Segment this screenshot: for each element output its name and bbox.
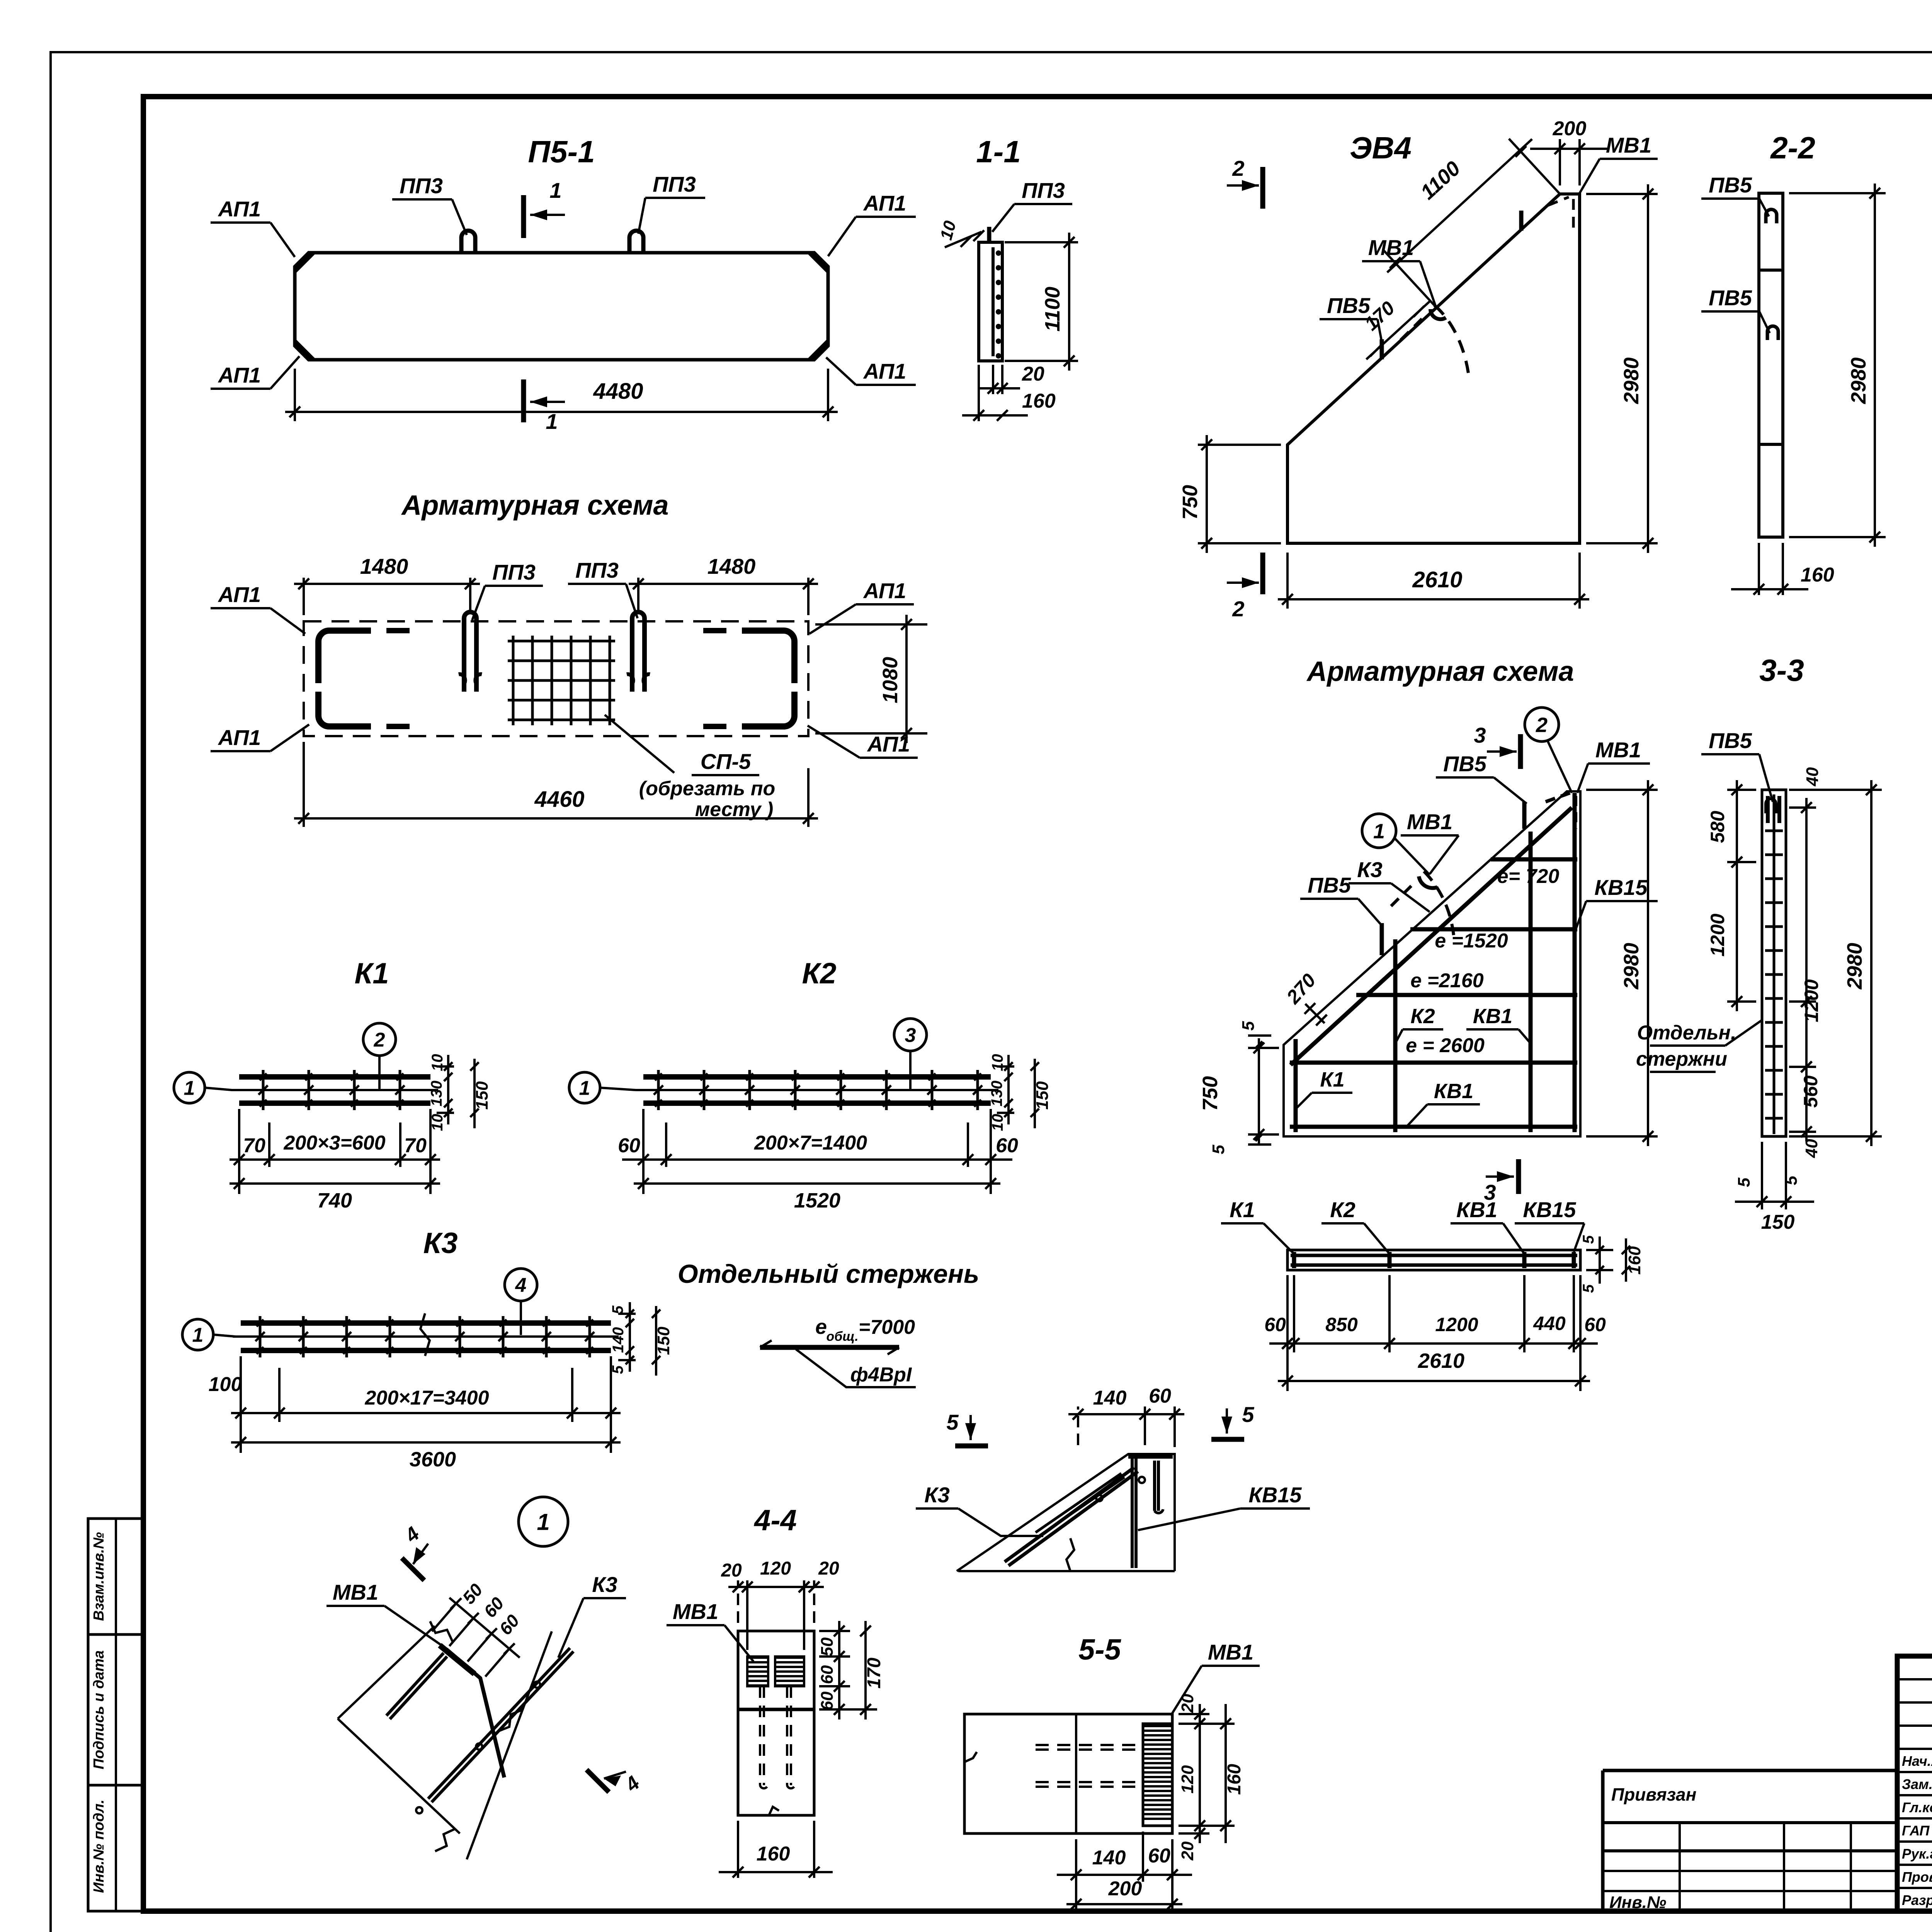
section mark 1 bottom [521, 379, 526, 422]
svg-text:(обрезать по: (обрезать по [639, 777, 776, 800]
svg-text:МВ1: МВ1 [333, 1580, 378, 1604]
bottom strip plan [1287, 1250, 1580, 1270]
svg-text:1200: 1200 [1435, 1314, 1478, 1335]
dim 2980 2-2 [1789, 192, 1886, 194]
node long dim line [467, 1631, 552, 1859]
svg-text:=7000: =7000 [859, 1316, 915, 1338]
2-2 strip [1759, 193, 1783, 537]
svg-text:К3: К3 [1357, 857, 1383, 882]
svg-text:МВ1: МВ1 [1595, 738, 1641, 762]
svg-text:130: 130 [988, 1081, 1005, 1107]
svg-text:МВ1: МВ1 [1606, 133, 1651, 157]
dim 1480 left arm [303, 578, 305, 615]
4-4 bottom dim 160 [769, 1807, 779, 1815]
svg-text:Арматурная схема: Арматурная схема [401, 490, 668, 521]
svg-text:2980: 2980 [1620, 357, 1643, 404]
1-1 wall strip [979, 242, 1002, 361]
svg-text:1: 1 [1373, 820, 1385, 843]
svg-text:ПП3: ПП3 [1022, 178, 1065, 202]
СП-5 label [605, 715, 674, 773]
К2 right dims [997, 1065, 1014, 1068]
dim 200 top [1559, 139, 1561, 185]
svg-text:20: 20 [1178, 1841, 1197, 1861]
svg-text:общ.: общ. [826, 1329, 858, 1344]
svg-text:1480: 1480 [707, 554, 756, 578]
svg-text:Подпись и дата: Подпись и дата [91, 1650, 107, 1769]
svg-text:130: 130 [428, 1081, 445, 1107]
750 dim arm [1258, 1038, 1260, 1144]
К3 right dims [618, 1313, 636, 1315]
svg-text:e: e [815, 1315, 827, 1338]
svg-text:Взам.инв.№: Взам.инв.№ [91, 1532, 107, 1621]
К2 bottom dims [642, 1109, 645, 1194]
svg-text:Инв.№: Инв.№ [1609, 1893, 1666, 1912]
270 dim slope [1305, 1004, 1325, 1023]
svg-text:60: 60 [1264, 1314, 1286, 1335]
svg-text:2980: 2980 [1620, 943, 1643, 990]
dim 160 1-1 [978, 365, 980, 421]
svg-text:850: 850 [1325, 1314, 1358, 1335]
svg-text:Привязан: Привязан [1611, 1784, 1696, 1804]
ПП3 loop tick 1-1 [987, 227, 992, 243]
svg-text:70: 70 [243, 1134, 265, 1157]
К3 diagonal bar arm [1291, 808, 1572, 1065]
svg-text:3: 3 [905, 1024, 916, 1047]
svg-text:1: 1 [549, 178, 561, 202]
second anchor leg node [386, 1653, 444, 1716]
svg-text:К2: К2 [1410, 1005, 1435, 1028]
svg-text:5: 5 [1735, 1177, 1753, 1187]
title block left attachment table [1603, 1769, 1897, 1772]
svg-text:ПП3: ПП3 [575, 558, 619, 582]
svg-text:2980: 2980 [1847, 357, 1870, 404]
3-3 right dims [1789, 806, 1816, 809]
svg-text:АП1: АП1 [863, 578, 906, 603]
svg-text:К3: К3 [423, 1227, 458, 1260]
svg-text:МВ1: МВ1 [1368, 235, 1414, 260]
ПВ5 ticks on slope [1380, 339, 1384, 359]
dim 20 1-1 [992, 365, 994, 394]
5-5 right dims [1179, 1713, 1209, 1715]
К3 pos circles [182, 1319, 213, 1350]
svg-text:КВ1: КВ1 [1456, 1197, 1497, 1222]
svg-text:МВ1: МВ1 [673, 1599, 718, 1624]
svg-text:ПВ5: ПВ5 [1308, 873, 1351, 897]
svg-text:АП1: АП1 [863, 359, 906, 383]
МВ1 embed middle + anchor dashed [1430, 309, 1446, 319]
svg-text:СП-5: СП-5 [701, 749, 751, 774]
svg-text:750: 750 [1199, 1076, 1222, 1111]
svg-text:40: 40 [1802, 1139, 1821, 1158]
svg-text:60: 60 [996, 1134, 1018, 1157]
svg-text:4: 4 [515, 1274, 527, 1297]
svg-text:5: 5 [1209, 1145, 1228, 1154]
svg-text:1: 1 [537, 1509, 549, 1535]
svg-text:20: 20 [1022, 363, 1044, 385]
svg-text:3600: 3600 [410, 1448, 456, 1471]
svg-text:КВ15: КВ15 [1523, 1197, 1576, 1222]
section mark 4 bottom-right [587, 1770, 609, 1792]
svg-text:5: 5 [946, 1410, 959, 1434]
svg-text:1080: 1080 [879, 657, 902, 703]
svg-text:Нач.АПМ-1: Нач.АПМ-1 [1902, 1753, 1932, 1769]
svg-text:10: 10 [429, 1054, 446, 1071]
СП-5 mesh [512, 636, 515, 725]
svg-text:4460: 4460 [534, 787, 584, 812]
svg-text:5: 5 [1239, 1021, 1258, 1031]
svg-text:2: 2 [1536, 713, 1548, 736]
dim 140/60 top detail [1077, 1406, 1079, 1445]
К1 right dims [437, 1065, 454, 1068]
3-3 2980 dim [1789, 789, 1882, 791]
svg-text:60: 60 [1149, 1385, 1171, 1407]
К1 pos circles [174, 1072, 205, 1103]
svg-text:150: 150 [654, 1327, 673, 1355]
slab П5-1 outline [295, 253, 828, 360]
svg-text:5: 5 [1782, 1175, 1801, 1185]
svg-text:месту ): месту ) [695, 798, 774, 821]
dim 170 [1366, 301, 1430, 359]
svg-text:5: 5 [1580, 1284, 1597, 1293]
svg-text:140: 140 [610, 1327, 627, 1353]
svg-text:20: 20 [818, 1558, 839, 1579]
К1 ladder [239, 1074, 430, 1080]
svg-text:Инв.№ подл.: Инв.№ подл. [91, 1799, 107, 1893]
strip right dims [1586, 1249, 1613, 1251]
К2 ladder [643, 1074, 991, 1080]
3-3 strip [1762, 790, 1786, 1136]
svg-text:160: 160 [1224, 1764, 1245, 1795]
svg-text:КВ1: КВ1 [1434, 1080, 1473, 1103]
svg-text:60: 60 [1148, 1845, 1170, 1867]
svg-text:2: 2 [1232, 597, 1244, 621]
pos circle 1 arm [1362, 814, 1396, 848]
svg-text:1200: 1200 [1801, 979, 1822, 1022]
svg-text:50: 50 [818, 1637, 837, 1656]
svg-text:К1: К1 [1230, 1197, 1255, 1222]
dim 160 2-2 [1758, 543, 1760, 595]
svg-text:150: 150 [473, 1081, 492, 1110]
svg-text:КВ15: КВ15 [1594, 875, 1648, 900]
horizontal bars arm [1491, 857, 1577, 862]
svg-text:2610: 2610 [1418, 1349, 1464, 1372]
svg-text:200×17=3400: 200×17=3400 [364, 1387, 489, 1409]
svg-text:1480: 1480 [360, 554, 408, 578]
4-4 top dims [737, 1580, 739, 1623]
svg-text:3-3: 3-3 [1759, 653, 1804, 687]
node 1 circle [519, 1497, 568, 1546]
3-3 top anchors [1766, 799, 1776, 813]
svg-text:5: 5 [1580, 1235, 1597, 1244]
svg-text:ПВ5: ПВ5 [1327, 293, 1371, 318]
strip bottom dims [1286, 1275, 1289, 1391]
svg-text:1-1: 1-1 [976, 134, 1021, 169]
svg-text:МВ1: МВ1 [1407, 810, 1452, 834]
svg-text:Провер.: Провер. [1902, 1869, 1932, 1885]
svg-text:1100: 1100 [1041, 287, 1064, 332]
svg-text:МВ1: МВ1 [1208, 1640, 1253, 1664]
МВ1 anchor bent bar node [446, 1649, 504, 1777]
section marks 2 [1260, 167, 1265, 209]
dim 1100 along slope [1509, 139, 1560, 194]
svg-text:Отдельный стержень: Отдельный стержень [678, 1259, 980, 1289]
dim 4480 [294, 369, 296, 421]
svg-text:Зам.нач.: Зам.нач. [1902, 1776, 1932, 1792]
ПВ5 U anchors 2-2 [1766, 209, 1777, 223]
svg-text:160: 160 [1022, 390, 1056, 412]
svg-text:200: 200 [1553, 117, 1587, 140]
4-4 hatched plates [747, 1656, 768, 1659]
svg-text:70: 70 [404, 1134, 427, 1157]
К1 bottom dims [238, 1109, 240, 1194]
svg-text:140: 140 [1093, 1387, 1127, 1409]
К3 bars in detail [1005, 1468, 1134, 1562]
svg-text:5: 5 [1242, 1402, 1254, 1427]
svg-text:e = 2600: e = 2600 [1406, 1034, 1485, 1057]
strip vertical bars [1292, 1252, 1296, 1268]
svg-text:120: 120 [1178, 1765, 1197, 1794]
left stamp column [88, 1519, 143, 1911]
svg-text:АП1: АП1 [218, 197, 261, 221]
4-4 right dims [819, 1630, 850, 1632]
dim 1080 arm [815, 623, 927, 626]
svg-text:КВ1: КВ1 [1473, 1005, 1512, 1028]
svg-text:60: 60 [818, 1665, 837, 1684]
dim 1480 right arm [637, 578, 639, 612]
svg-text:170: 170 [864, 1658, 884, 1689]
corner bars АП1 arm [318, 631, 371, 683]
corner detail outline [957, 1454, 1175, 1571]
svg-text:Арматурная схема: Арматурная схема [1306, 656, 1574, 687]
МВ1 plate + anchor in detail [1128, 1453, 1173, 1459]
svg-text:АП1: АП1 [863, 191, 906, 215]
ЭВ4 outline [1287, 194, 1580, 543]
title block main box [1897, 1656, 1932, 1911]
svg-text:10: 10 [989, 1054, 1006, 1071]
bar [760, 1345, 899, 1350]
svg-text:1: 1 [184, 1077, 195, 1100]
К2 pos circles [569, 1072, 600, 1103]
svg-text:4-4: 4-4 [753, 1504, 797, 1537]
section mark 1 top [521, 195, 526, 238]
svg-text:4480: 4480 [593, 379, 643, 404]
dim 2980 ЭВ4 [1586, 193, 1658, 195]
4-4 dashed anchors [759, 1686, 761, 1785]
svg-text:1520: 1520 [794, 1189, 840, 1212]
svg-text:1200: 1200 [1707, 913, 1728, 956]
svg-text:740: 740 [317, 1189, 352, 1212]
2980 dim arm [1586, 789, 1658, 791]
svg-text:440: 440 [1533, 1313, 1566, 1334]
svg-text:5-5: 5-5 [1078, 1633, 1122, 1666]
svg-text:Рук.гр.: Рук.гр. [1902, 1846, 1932, 1862]
svg-text:2: 2 [1232, 156, 1244, 180]
svg-text:ПВ5: ПВ5 [1709, 286, 1752, 310]
svg-text:П5-1: П5-1 [528, 134, 595, 169]
svg-text:К1: К1 [355, 957, 389, 990]
lifting loops ПП3 on plan [461, 231, 475, 253]
svg-text:ПВ5: ПВ5 [1709, 173, 1752, 197]
svg-text:140: 140 [1092, 1847, 1126, 1869]
svg-text:КВ15: КВ15 [1248, 1483, 1302, 1507]
svg-text:АП1: АП1 [218, 363, 261, 387]
svg-text:750: 750 [1179, 485, 1202, 520]
svg-text:160: 160 [1625, 1246, 1644, 1275]
svg-text:АП1: АП1 [218, 725, 261, 750]
svg-text:200: 200 [1108, 1878, 1142, 1900]
svg-text:ПВ5: ПВ5 [1709, 728, 1752, 753]
svg-text:150: 150 [1033, 1081, 1052, 1110]
svg-text:К2: К2 [1330, 1197, 1355, 1222]
svg-text:e =1520: e =1520 [1435, 930, 1508, 952]
weld dots node [534, 1682, 540, 1688]
3-3 left dims [1727, 789, 1756, 791]
5-5 hatched plate [1143, 1724, 1172, 1826]
node slab edges [338, 1626, 435, 1719]
ЭВ4 arm outline [1284, 791, 1580, 1136]
5-5 dashed bars [1036, 1744, 1141, 1746]
svg-text:ПП3: ПП3 [492, 560, 536, 584]
svg-text:ПВ5: ПВ5 [1443, 752, 1487, 776]
section marks 3 [1518, 734, 1523, 769]
dim 750 ЭВ4 [1198, 444, 1281, 446]
corner plates АП1 [295, 253, 316, 274]
svg-text:120: 120 [760, 1558, 791, 1579]
svg-text:ЭВ4: ЭВ4 [1350, 131, 1412, 165]
ПП3 loops arm [464, 612, 476, 692]
svg-text:200×7=1400: 200×7=1400 [754, 1132, 867, 1154]
svg-text:К3: К3 [924, 1483, 950, 1507]
svg-text:стержни: стержни [1636, 1048, 1727, 1070]
svg-text:2-2: 2-2 [1770, 131, 1815, 165]
МВ1 dashed top arm [1546, 793, 1570, 802]
svg-text:580: 580 [1707, 811, 1728, 843]
svg-text:1: 1 [579, 1077, 590, 1100]
svg-text:e= 720: e= 720 [1497, 865, 1560, 888]
svg-text:ф4ВрI: ф4ВрI [850, 1364, 912, 1386]
node rotated dims [449, 1598, 520, 1658]
svg-text:Гл.конст.: Гл.конст. [1902, 1799, 1932, 1815]
svg-text:2980: 2980 [1843, 943, 1866, 990]
4-4 strip [738, 1631, 814, 1815]
КВ15 bar in detail [1131, 1457, 1134, 1568]
svg-text:ГАП: ГАП [1902, 1823, 1930, 1838]
svg-text:40: 40 [1803, 767, 1822, 786]
dim 4460 arm [303, 742, 305, 827]
svg-text:3: 3 [1474, 723, 1486, 747]
1-1 rebar dots [996, 250, 1001, 256]
5-5 bottom dims [1075, 1839, 1077, 1909]
vertical bars arm [1294, 1039, 1298, 1132]
svg-text:60: 60 [1584, 1314, 1606, 1335]
К3 bottom dims [240, 1356, 242, 1453]
svg-text:АП1: АП1 [218, 582, 261, 607]
ПВ5 ticks arm [1380, 923, 1384, 955]
svg-text:2: 2 [374, 1029, 385, 1051]
svg-text:2610: 2610 [1412, 567, 1462, 592]
svg-text:1: 1 [192, 1324, 204, 1347]
dashed slab outline [304, 621, 808, 736]
МВ1 dashed mid arm [1419, 876, 1437, 888]
svg-text:К2: К2 [802, 957, 837, 990]
svg-text:200×3=600: 200×3=600 [283, 1132, 385, 1154]
dim 2610 ЭВ4 [1286, 553, 1289, 609]
svg-text:К1: К1 [1320, 1068, 1344, 1091]
svg-text:e =2160: e =2160 [1410, 969, 1483, 992]
pos circle 2 arm [1525, 707, 1559, 742]
svg-text:ПП3: ПП3 [653, 172, 696, 196]
section mark 4 top-left [402, 1558, 424, 1580]
МВ1 embed top dashed [1548, 197, 1569, 206]
svg-text:20: 20 [1178, 1694, 1197, 1713]
svg-text:560: 560 [1800, 1075, 1821, 1108]
svg-text:20: 20 [721, 1560, 742, 1581]
weld dots detail [1096, 1495, 1102, 1501]
К3 bar node [428, 1648, 570, 1799]
ф4ВрI label [796, 1349, 916, 1387]
svg-text:100: 100 [209, 1373, 242, 1396]
3-3 bottom dims [1761, 1142, 1763, 1209]
svg-text:60: 60 [818, 1691, 837, 1710]
dim 1100 1-1 [1005, 241, 1078, 243]
svg-text:160: 160 [757, 1843, 790, 1865]
svg-text:Отдельн.: Отдельн. [1637, 1022, 1736, 1044]
svg-text:150: 150 [1761, 1211, 1795, 1233]
К3 ladder [241, 1320, 611, 1326]
МВ1 plate node [440, 1645, 474, 1674]
svg-text:К3: К3 [592, 1572, 617, 1597]
svg-text:160: 160 [1801, 564, 1834, 586]
svg-text:ПП3: ПП3 [400, 173, 443, 198]
5-5 strip [964, 1714, 1172, 1833]
svg-text:5: 5 [609, 1305, 626, 1314]
svg-text:Разраб: Разраб [1902, 1892, 1932, 1908]
svg-text:60: 60 [618, 1134, 640, 1157]
